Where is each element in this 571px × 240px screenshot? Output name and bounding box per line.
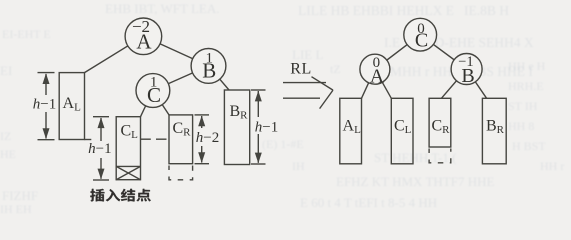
edge B to C_R (right) <box>441 69 466 98</box>
dashed growth box under C_R (right) <box>429 149 451 163</box>
dimension arrow h-1 for B_R <box>251 90 278 164</box>
svg-text:B: B <box>461 65 474 87</box>
svg-text:HH e H: HH e H <box>508 59 546 73</box>
svg-text:EI: EI <box>0 63 12 78</box>
svg-text:ST HEHH T-1 (: ST HEHH T-1 ( <box>374 150 456 165</box>
node A (balance 0, right) <box>360 54 390 87</box>
svg-text:HH r: HH r <box>540 159 564 173</box>
edge A to A_L (right) <box>362 69 375 98</box>
subtree rect C_R <box>169 115 193 164</box>
svg-text:HE: HE <box>0 147 16 161</box>
edge C to B (right) <box>420 35 466 69</box>
label 插入结点 (inserted node) <box>90 189 151 202</box>
svg-text:A: A <box>136 29 152 53</box>
svg-text:B: B <box>202 59 216 83</box>
edge C to A (right) <box>375 35 420 69</box>
subtree rect A_L (right) <box>340 98 362 164</box>
svg-text:EFHZ KT HMX THTF7 HHE: EFHZ KT HMX THTF7 HHE <box>336 174 494 189</box>
svg-text:HH 8: HH 8 <box>508 119 534 133</box>
inserted node X-box under C_L <box>116 166 140 179</box>
svg-text:C: C <box>415 30 428 52</box>
svg-text:ST IH: ST IH <box>508 99 538 113</box>
edge A to C_L (right) <box>375 69 391 98</box>
svg-text:IH: IH <box>292 159 305 173</box>
svg-text:(E) 1-#E: (E) 1-#E <box>262 137 304 151</box>
svg-text:h−1: h−1 <box>33 97 56 113</box>
svg-text:FIZHF: FIZHF <box>2 188 38 203</box>
edge C to C_R <box>153 91 169 115</box>
dashed growth box under C_R <box>169 166 193 180</box>
subtree rect B_R <box>224 90 249 165</box>
svg-text:IH EH: IH EH <box>0 202 32 215</box>
subtree rect A_L <box>59 73 91 140</box>
node B (balance -1, right) <box>451 54 482 88</box>
subtree rect C_L <box>116 117 140 180</box>
subtree rect C_L (right) <box>391 98 413 164</box>
node C (balance 1) <box>136 74 170 108</box>
svg-text:A: A <box>370 66 385 88</box>
svg-text:HRH.E: HRH.E <box>508 79 544 93</box>
node A (balance -2) <box>125 17 162 55</box>
edge A to A_L <box>85 36 144 72</box>
svg-text:h−2: h−2 <box>196 130 219 146</box>
dashed link C_L to C_R <box>140 138 168 140</box>
edge A to B <box>143 36 208 66</box>
edge B to B_R (right) <box>467 69 487 98</box>
dimension arrow h-1 for A_L <box>33 73 56 140</box>
dimension arrow h-2 for C_R <box>195 115 220 164</box>
edge B to C <box>153 66 209 91</box>
svg-text:h−1: h−1 <box>255 119 278 135</box>
svg-text:H BST: H BST <box>512 139 546 153</box>
svg-text:tZ: tZ <box>330 62 341 76</box>
node C (balance 0, right) <box>404 18 437 51</box>
svg-text:EI-EHT E: EI-EHT E <box>2 27 51 41</box>
dimension arrow h-1 for C_L <box>88 117 111 180</box>
edge C to C_L <box>141 91 153 117</box>
node B (balance 1) <box>191 49 226 84</box>
svg-text:IZ: IZ <box>0 129 11 143</box>
svg-text:IE.8B H: IE.8B H <box>464 3 509 18</box>
edge B to B_R <box>209 66 230 90</box>
subtree rect B_R (right) <box>482 98 506 164</box>
svg-text:C: C <box>147 83 161 107</box>
svg-text:E 60 t 4 T tEFI t 8-5 4 HH: E 60 t 4 T tEFI t 8-5 4 HH <box>300 195 437 210</box>
svg-text:RL: RL <box>290 61 311 78</box>
svg-text:EHB IBT, WFT LEA.: EHB IBT, WFT LEA. <box>105 1 219 16</box>
subtree rect C_R (right) <box>429 98 451 147</box>
RL rotation arrow <box>283 61 333 109</box>
svg-text:LILE HB EHBBI HEHLX E: LILE HB EHBBI HEHLX E <box>298 3 454 18</box>
svg-text:h−1: h−1 <box>88 141 111 157</box>
